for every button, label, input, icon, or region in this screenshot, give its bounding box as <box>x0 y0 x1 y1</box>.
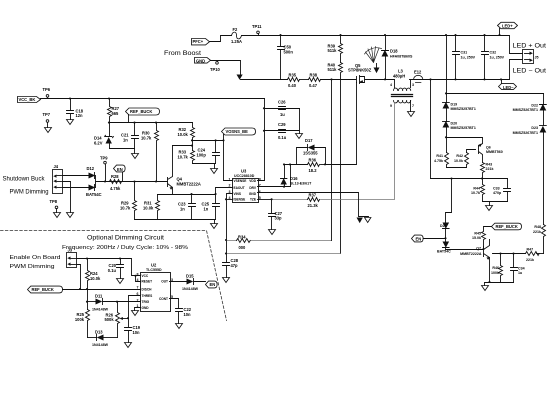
svg-text:D16: D16 <box>290 176 298 181</box>
svg-text:1N4148W: 1N4148W <box>92 343 109 347</box>
resistor R40 511k <box>328 62 343 253</box>
IC U3 UCC28810D <box>229 168 261 202</box>
signal ground open <box>365 218 371 223</box>
svg-text:Optional Dimming Circuit: Optional Dimming Circuit <box>87 236 164 242</box>
svg-text:DISCH: DISCH <box>142 287 153 291</box>
diode D13 1N4148W <box>92 329 118 347</box>
svg-text:100k: 100k <box>491 271 499 275</box>
svg-text:Q7: Q7 <box>476 246 481 250</box>
svg-text:18.2: 18.2 <box>309 168 318 173</box>
wire J3 pin1 to U2 VCC <box>77 259 141 276</box>
wire THRES to wiper <box>129 296 141 319</box>
svg-text:C29: C29 <box>278 122 286 127</box>
resistor R24 10.0k <box>86 259 101 290</box>
svg-text:500k: 500k <box>105 317 115 322</box>
zener D14 6.2V <box>94 135 114 148</box>
svg-text:R47: R47 <box>527 247 534 251</box>
svg-text:LED−: LED− <box>503 85 514 90</box>
testpoint TP11 <box>252 24 262 36</box>
ground VDD decoupling <box>296 134 303 139</box>
wire D13 branch <box>88 337 97 339</box>
svg-text:MMSZ5257BT1: MMSZ5257BT1 <box>451 126 476 130</box>
svg-text:D20: D20 <box>451 122 458 126</box>
svg-text:8: 8 <box>137 272 139 276</box>
ground below Q7 <box>482 286 489 291</box>
svg-text:TP7: TP7 <box>43 112 51 117</box>
wire VCC rail <box>41 98 265 100</box>
capacitor C28 47p <box>223 254 239 278</box>
svg-text:D15: D15 <box>186 273 194 278</box>
capacitor C33 470p <box>493 179 511 202</box>
capacitor C27 33p <box>269 200 283 230</box>
svg-text:SL13-E3/61T: SL13-E3/61T <box>290 182 312 186</box>
ground below C22 <box>176 324 183 329</box>
svg-text:7: 7 <box>259 184 261 188</box>
capacitor C32 1u 250V <box>482 36 505 80</box>
net label REF_BUCK right <box>492 223 522 230</box>
svg-text:REF_BUCK: REF_BUCK <box>130 109 152 114</box>
svg-text:REF_BUCK: REF_BUCK <box>32 287 54 292</box>
svg-text:511k: 511k <box>328 48 338 53</box>
svg-text:500n: 500n <box>284 49 294 54</box>
resistor R27 665 <box>108 99 120 137</box>
resistor R28 4.75k <box>110 174 122 191</box>
svg-text:10.7k: 10.7k <box>471 191 480 195</box>
svg-text:480µH: 480µH <box>393 73 405 78</box>
svg-text:GND: GND <box>249 192 257 196</box>
wire R37 to aux winding <box>321 103 395 200</box>
wire TZE to R37 <box>272 199 308 201</box>
wire sense box bottom <box>483 202 508 206</box>
capacitor C18 12n <box>67 99 84 120</box>
wire LED- rail <box>410 60 523 80</box>
testpoint TP10 <box>210 61 221 73</box>
net label EN right <box>412 235 446 242</box>
svg-text:GND: GND <box>142 306 150 310</box>
svg-text:R28: R28 <box>111 174 119 179</box>
testpoint TP6 <box>43 87 51 99</box>
svg-text:6: 6 <box>137 292 139 296</box>
mosfet Q5 STP8NK50Z <box>348 63 372 84</box>
svg-text:R42: R42 <box>456 154 463 158</box>
arrow into sense rail <box>237 75 243 80</box>
resistor R37 21.3k <box>308 192 320 208</box>
svg-text:1n: 1n <box>204 206 209 211</box>
wire ISENSE sense column <box>331 80 333 241</box>
wire Q4 emitter rail <box>158 194 216 196</box>
svg-text:47p: 47p <box>231 263 239 268</box>
resistor R34 000 <box>237 234 251 249</box>
svg-text:10.0k: 10.0k <box>90 276 101 281</box>
svg-text:E12: E12 <box>414 70 422 75</box>
resistor R36 18.2 <box>308 157 320 173</box>
svg-text:EAOUT: EAOUT <box>234 186 245 190</box>
ground below C18 <box>67 120 74 125</box>
svg-text:From Boost: From Boost <box>164 51 201 57</box>
svg-text:1N4148W: 1N4148W <box>182 287 199 291</box>
wire VDD decoupling bottom <box>265 109 300 134</box>
wire U3 pin4 ISENSE <box>227 199 233 201</box>
svg-text:D22: D22 <box>531 104 538 108</box>
svg-text:TLC555D: TLC555D <box>146 268 162 272</box>
capacitor C29 0.1u <box>278 122 287 140</box>
wire R41 R42 bottom join <box>447 167 467 169</box>
svg-text:UCC28810D: UCC28810D <box>234 174 255 178</box>
svg-text:EN: EN <box>117 167 123 172</box>
connector J4 <box>53 164 63 193</box>
svg-text:D21: D21 <box>440 224 447 228</box>
diode D16 SL13-E3 <box>281 165 313 187</box>
wire Q7 emitter ground rail <box>485 283 514 286</box>
svg-text:10.0k: 10.0k <box>143 205 154 210</box>
resistor R41 4.75k <box>434 153 449 168</box>
wire LED- to sense box <box>430 80 432 179</box>
wire compensation ground rail <box>135 220 216 224</box>
connector PFC+ <box>192 39 210 45</box>
diode D11 1N4148W <box>92 294 141 312</box>
net label VCC_BK <box>18 97 41 103</box>
wire Q5 to switch node <box>367 79 395 81</box>
svg-text:100p: 100p <box>197 152 207 157</box>
resistor R38 0.47 <box>309 72 321 87</box>
svg-text:PWM Dimming: PWM Dimming <box>10 264 55 270</box>
svg-text:10.0k: 10.0k <box>178 132 189 137</box>
wire sense rail left <box>241 79 288 81</box>
svg-text:MMSZ5267BT1: MMSZ5267BT1 <box>513 131 538 135</box>
svg-text:D13: D13 <box>95 329 103 334</box>
svg-text:MMBT2222A: MMBT2222A <box>177 182 201 187</box>
svg-text:0.40: 0.40 <box>288 83 297 88</box>
svg-text:4: 4 <box>390 83 392 87</box>
svg-text:LED − Out: LED − Out <box>513 68 547 74</box>
svg-text:6: 6 <box>259 190 261 194</box>
capacitor C31 1u 250V <box>453 36 476 80</box>
svg-text:TP11: TP11 <box>252 24 262 29</box>
svg-text:2: 2 <box>229 184 231 188</box>
svg-text:ISENSE: ISENSE <box>234 198 246 202</box>
wire CONT to C22 <box>170 299 179 309</box>
resistor R47 221k <box>526 247 540 262</box>
diode D15 1N4148W <box>182 273 206 291</box>
svg-text:R44: R44 <box>473 187 480 191</box>
wire J4 pin2 to ground <box>63 182 71 213</box>
svg-text:Q6: Q6 <box>486 146 491 150</box>
wire ISENSE line <box>227 240 332 242</box>
svg-text:R41: R41 <box>436 154 443 158</box>
svg-text:U3: U3 <box>241 168 247 173</box>
ground below C28 <box>223 278 230 283</box>
wire VDD decoupling top <box>265 108 300 110</box>
svg-text:0.1u: 0.1u <box>278 135 287 140</box>
dashed dimming boundary <box>1 231 227 321</box>
transistor Q6 MMBT560 <box>447 138 503 163</box>
svg-text:R45: R45 <box>474 232 481 236</box>
wire box to D21 <box>446 179 452 223</box>
wire J4 pin1 to D12 <box>63 175 89 177</box>
wire VOSNS node <box>193 140 224 142</box>
svg-text:100k: 100k <box>75 317 85 322</box>
svg-text:OUT: OUT <box>161 280 168 284</box>
svg-text:D17: D17 <box>305 138 313 143</box>
zener D23 MMSZ5267BT1 <box>513 126 547 225</box>
svg-text:PFC+: PFC+ <box>193 39 204 44</box>
svg-text:1: 1 <box>229 177 231 181</box>
svg-text:470p: 470p <box>493 191 502 195</box>
ground below C20 <box>117 279 124 284</box>
svg-text:C31: C31 <box>461 51 468 55</box>
wire TRIG line with D11 <box>88 301 96 303</box>
svg-text:10.7k: 10.7k <box>120 205 131 210</box>
fuse F2 1.25A <box>231 27 242 44</box>
svg-text:VDD: VDD <box>249 179 256 183</box>
svg-text:J5: J5 <box>535 55 539 59</box>
svg-text:VCC: VCC <box>142 274 149 278</box>
svg-text:STP8NK50Z: STP8NK50Z <box>348 67 372 72</box>
svg-text:1n: 1n <box>180 206 185 211</box>
transistor Q4 MMBT2222A <box>168 146 201 195</box>
svg-text:4.75k: 4.75k <box>434 159 443 163</box>
svg-text:VCC_BK: VCC_BK <box>19 97 36 102</box>
svg-text:R38: R38 <box>310 72 318 77</box>
svg-text:R46: R46 <box>492 266 499 270</box>
diode D12 BAT54C <box>86 166 106 197</box>
resistor R31 10.0k <box>143 195 160 220</box>
wire U3 pin6 GND <box>258 193 369 217</box>
svg-text:C34: C34 <box>518 267 525 271</box>
wire Q7 collector line <box>493 253 526 255</box>
wire R33 C24 ground bus <box>193 164 216 169</box>
svg-text:TRIG: TRIG <box>142 300 150 304</box>
svg-text:C33: C33 <box>493 187 500 191</box>
svg-text:TP9: TP9 <box>100 156 108 161</box>
wire REF_BUCK net <box>110 122 193 124</box>
svg-text:TP10: TP10 <box>210 67 221 72</box>
diode D21 BAT54C <box>437 223 484 254</box>
capacitor C21 1n <box>121 123 139 149</box>
svg-text:10.0k: 10.0k <box>454 159 463 163</box>
wire LED+ drop to OVP chain <box>446 36 448 103</box>
net label REF_BUCK <box>126 108 160 123</box>
wire sense box top <box>431 178 508 180</box>
ground below C21 bus <box>134 149 136 154</box>
power ground arrow <box>357 218 363 224</box>
resistor R43 221k <box>481 163 494 179</box>
svg-text:0.1u: 0.1u <box>108 268 117 273</box>
svg-text:C26: C26 <box>278 100 286 105</box>
capacitor C24 100p <box>197 141 220 164</box>
svg-text:TP6: TP6 <box>43 87 51 92</box>
svg-text:U2: U2 <box>151 262 157 267</box>
wire R36 to loop right <box>321 164 326 166</box>
svg-text:EN: EN <box>416 236 422 241</box>
svg-text:MMSZ5267BT1: MMSZ5267BT1 <box>513 108 538 112</box>
net label EN dim <box>206 281 218 288</box>
svg-text:LED + Out: LED + Out <box>513 43 547 49</box>
potentiometer R26 500k <box>105 302 129 338</box>
wire U3 pin5 TZE <box>258 199 272 201</box>
net label LED+ <box>498 22 518 35</box>
svg-text:REF_BUCK: REF_BUCK <box>496 224 518 229</box>
resistor R25 100k <box>75 310 90 338</box>
wire OUT to D15 <box>170 281 187 283</box>
wire J3 pin2 down <box>77 265 81 290</box>
svg-text:221k: 221k <box>486 167 494 171</box>
wire sense node to Q5 <box>321 79 353 81</box>
wire OVP horizontal bus <box>447 93 544 95</box>
net label EN <box>114 165 126 181</box>
wire RESET tie to VCC <box>136 276 141 282</box>
svg-text:R37: R37 <box>309 192 317 197</box>
svg-text:1N4148W: 1N4148W <box>92 307 109 311</box>
net label LED- <box>499 80 517 90</box>
svg-text:VOSNS_BE: VOSNS_BE <box>226 129 249 134</box>
svg-text:CONT: CONT <box>159 297 168 301</box>
svg-text:2: 2 <box>137 298 139 302</box>
zener D22 MMSZ5267BT1 <box>513 94 547 126</box>
resistor R30 10.7k <box>141 123 159 182</box>
svg-text:511k: 511k <box>328 67 338 72</box>
svg-text:10.7k: 10.7k <box>178 154 189 159</box>
connector J3 <box>67 247 77 267</box>
ground below C19 <box>125 343 132 348</box>
testpoint TP7 grounded <box>43 112 52 132</box>
svg-text:3: 3 <box>412 83 414 87</box>
wire VSENSE column to U3 pin1 <box>224 135 233 181</box>
svg-text:GND: GND <box>196 58 205 63</box>
svg-text:F2: F2 <box>233 27 239 32</box>
svg-text:MMSZ5257BT1: MMSZ5257BT1 <box>451 107 476 111</box>
svg-text:MMBT560: MMBT560 <box>486 150 503 154</box>
svg-text:DRV: DRV <box>249 186 257 190</box>
ground below rail <box>211 224 218 229</box>
ground at L3 pin7 <box>408 112 415 117</box>
wire R42 top to Q6 base <box>467 150 476 153</box>
svg-text:D11: D11 <box>95 294 103 299</box>
svg-text:12n: 12n <box>76 113 84 118</box>
svg-text:D12: D12 <box>87 166 95 171</box>
svg-text:10.7k: 10.7k <box>141 135 152 140</box>
svg-text:1u: 1u <box>518 271 522 275</box>
resistor R32 10.0k <box>178 123 195 151</box>
connector GND <box>195 58 211 64</box>
resistor R35 0.40 <box>288 72 300 87</box>
capacitor C26 1u <box>278 100 286 117</box>
svg-text:HFA08TB60S: HFA08TB60S <box>390 54 413 58</box>
heatsink symbol <box>365 47 382 74</box>
svg-text:LED+: LED+ <box>502 23 513 28</box>
wire Q4 base net <box>100 181 168 183</box>
transistor Q7 MMBT2222A <box>460 240 490 283</box>
ground below C27 <box>269 230 276 235</box>
wire EAOUT link <box>216 188 233 195</box>
connector J5 LED out <box>523 50 539 64</box>
wire VDD feed to U3 pin8 <box>258 99 265 181</box>
svg-text:221k: 221k <box>526 258 534 262</box>
svg-text:R36: R36 <box>309 157 317 162</box>
testpoint TP8 grounded <box>50 199 61 217</box>
svg-text:TP8: TP8 <box>50 199 58 204</box>
resistor R44 10.7k <box>471 179 485 202</box>
wire top rail VIN/LED+ <box>242 36 523 54</box>
svg-text:33p: 33p <box>275 216 283 221</box>
svg-text:1.25A: 1.25A <box>231 39 242 44</box>
svg-text:J4: J4 <box>54 164 59 169</box>
resistor R42 10.0k <box>454 153 469 168</box>
wire GND to sense rail <box>211 61 241 75</box>
svg-text:TZE: TZE <box>250 198 256 202</box>
wire U3 pin3 VINS <box>227 194 233 254</box>
testpoint TP9 <box>100 156 108 182</box>
ground below U2 <box>132 311 139 316</box>
net label REF_BUCK dim <box>28 286 63 293</box>
svg-text:665: 665 <box>112 111 120 116</box>
svg-text:000: 000 <box>239 245 247 250</box>
svg-text:C32: C32 <box>490 51 497 55</box>
svg-text:VSENSE: VSENSE <box>234 179 247 183</box>
svg-text:EN: EN <box>210 282 216 287</box>
resistor R29 10.7k <box>120 182 137 220</box>
svg-text:D18: D18 <box>390 49 398 54</box>
svg-text:BAT54C: BAT54C <box>437 250 451 254</box>
wire timing column <box>87 290 89 310</box>
inductor L3 480uH transformer <box>390 69 414 112</box>
wire gate line <box>326 83 357 165</box>
svg-text:1u, 250V: 1u, 250V <box>490 55 505 59</box>
wire R47 to right rail <box>537 253 544 255</box>
wire U3 pin7 DRV <box>258 165 291 187</box>
svg-text:8: 8 <box>259 177 261 181</box>
wire U2 GND pin <box>135 308 141 311</box>
svg-text:D19: D19 <box>451 103 458 107</box>
svg-text:0.47: 0.47 <box>309 83 318 88</box>
svg-text:1u, 250V: 1u, 250V <box>461 55 476 59</box>
resistor R48 221k <box>533 225 546 254</box>
svg-text:10n: 10n <box>184 312 192 317</box>
zener D19 MMSZ5257BT1 <box>443 102 476 122</box>
svg-text:15.0k: 15.0k <box>472 236 481 240</box>
IC U2 TLC555D <box>137 262 174 311</box>
svg-text:R34: R34 <box>238 234 246 239</box>
capacitor C20 0.1u <box>108 259 124 279</box>
svg-text:1n: 1n <box>123 137 128 142</box>
svg-text:MMBT2222A: MMBT2222A <box>460 252 482 256</box>
svg-text:R43: R43 <box>486 163 493 167</box>
svg-text:10n: 10n <box>133 330 141 335</box>
svg-text:9: 9 <box>390 104 392 108</box>
wire VINS divider line <box>227 253 341 255</box>
wire REF_BUCK to DISCH <box>63 289 141 291</box>
svg-text:Enable On Board: Enable On Board <box>10 255 61 261</box>
capacitor C34 1u <box>511 254 525 283</box>
ferrite E12 <box>414 70 423 83</box>
capacitor C19 10n <box>125 319 141 343</box>
svg-text:7: 7 <box>137 286 139 290</box>
svg-text:4.75k: 4.75k <box>110 186 121 191</box>
svg-text:PWM Dimming: PWM Dimming <box>10 190 49 196</box>
capacitor C50 500n <box>278 36 294 80</box>
svg-text:RESET: RESET <box>142 280 153 284</box>
ground below C24 <box>211 169 218 174</box>
diode D17 1SS355 loop <box>297 138 326 165</box>
ground at J4 pin2 <box>67 213 74 218</box>
wire gate loop bottom left <box>285 164 308 166</box>
svg-text:6.2V: 6.2V <box>94 141 103 146</box>
svg-text:221k: 221k <box>533 230 541 234</box>
wire between sense resistors <box>300 79 309 81</box>
svg-text:21.3k: 21.3k <box>308 203 319 208</box>
diode D18 HFA08TB60S <box>382 36 413 80</box>
svg-text:THRES: THRES <box>142 294 153 298</box>
